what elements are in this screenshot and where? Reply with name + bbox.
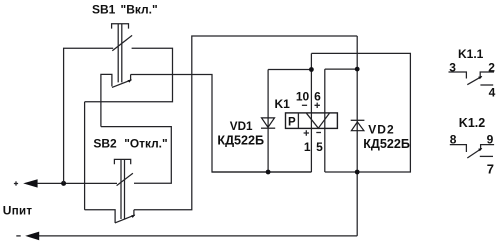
plus terminal sign [14, 181, 18, 185]
svg-text:VD2: VD2 [368, 122, 394, 136]
contact K1.2 moving contact [467, 148, 481, 158]
polarity plus top [315, 103, 320, 108]
svg-text:K1.1: K1.1 [458, 47, 484, 61]
wire SB1.1 right to SB1.2 left net [85, 48, 173, 102]
svg-text:"Откл.": "Откл." [124, 137, 167, 151]
relay K1 lead pin10/pin1 [310, 53, 312, 172]
contact K1.2 arrow tip [478, 148, 482, 151]
wire SB2.2 right terminal post [133, 210, 135, 216]
wire link to SB2.1 right [101, 127, 171, 184]
svg-text:1: 1 [304, 140, 311, 154]
contact SB1.1 moving contact [112, 35, 132, 50]
arrow - input [25, 232, 39, 241]
contact K1.2 pin9 wire [481, 145, 495, 149]
relay K1 V symbol [306, 113, 329, 128]
polarity plus bottom [304, 130, 309, 135]
contact SB2.2 moving contact [115, 215, 135, 223]
pushbutton SB1 plunger head [112, 24, 129, 29]
wire + rail [37, 182, 117, 184]
wire SB2.2 right up to top rail [134, 36, 357, 210]
svg-text:K1: K1 [275, 97, 291, 111]
wire lead2 top link [325, 68, 357, 70]
contact K1.1 pin2 wire [480, 72, 494, 77]
svg-text:КД522Б: КД522Б [363, 137, 410, 151]
diode VD1 [262, 118, 275, 127]
wire SB1.2 left terminal step [101, 74, 112, 126]
svg-text:КД522Б: КД522Б [217, 134, 264, 148]
diode VD2 [351, 122, 364, 131]
junction dot E [266, 170, 271, 175]
contact K1.2 common wire pin8 [450, 145, 467, 152]
svg-text:5: 5 [316, 140, 323, 154]
svg-text:Uпит: Uпит [3, 204, 33, 218]
junction dot C [309, 67, 314, 72]
svg-text:10: 10 [296, 90, 310, 104]
svg-text:SB1: SB1 [92, 3, 116, 17]
svg-text:VD1: VD1 [230, 120, 253, 133]
contact K1.1 pin4 stub [480, 84, 493, 86]
contact SB1.2 arrow tip [128, 79, 132, 82]
svg-text:P: P [288, 116, 296, 128]
relay K1 P compartment divider [297, 113, 299, 128]
junction dot B [355, 67, 360, 72]
pushbutton SB2 plunger stem [121, 159, 125, 219]
svg-text:K1.2: K1.2 [459, 116, 485, 130]
svg-text:"Вкл.": "Вкл." [121, 3, 158, 17]
wire SB1.2 right to relay bottom rail [131, 75, 312, 173]
contact K1.2 pin7 stub [480, 155, 493, 157]
pushbutton SB2 plunger head [114, 159, 130, 164]
wire SB2.2 left terminal [85, 210, 116, 223]
svg-text:SB2: SB2 [93, 137, 117, 151]
svg-text:7: 7 [487, 162, 494, 177]
arrow + input [23, 179, 37, 187]
wire SB1.2 right terminal post [130, 75, 132, 81]
wire SB1.1 left branch [64, 48, 114, 183]
wire VD1 top link [268, 69, 311, 71]
junction dot D [355, 170, 360, 175]
junction dot A [61, 181, 66, 186]
contact SB1.2 moving contact [112, 80, 132, 88]
wire vertical VD2 branch [356, 36, 358, 236]
svg-text:6: 6 [314, 90, 321, 104]
svg-text:4: 4 [489, 86, 496, 100]
relay K1 lead pin6/pin5 [324, 69, 326, 172]
wire down to SB2.2 [84, 102, 86, 210]
polarity minus bottom [316, 132, 321, 134]
contact K1.1 arrow tip [478, 76, 482, 79]
contact SB2.1 moving contact [117, 173, 133, 185]
wire pin10 top loop [311, 53, 410, 172]
wire bottom rail segment1 [212, 171, 312, 173]
contact SB2.2 arrow tip [131, 215, 135, 218]
wire - rail [37, 235, 357, 237]
contact K1.1 common wire pin3 [449, 72, 467, 79]
wire VD1 branch vertical [267, 70, 269, 173]
polarity minus top [302, 104, 307, 106]
pushbutton SB1 plunger stem [118, 24, 122, 83]
minus terminal sign [16, 235, 20, 237]
relay K1 box [286, 113, 338, 128]
contact K1.1 moving contact [467, 76, 481, 84]
